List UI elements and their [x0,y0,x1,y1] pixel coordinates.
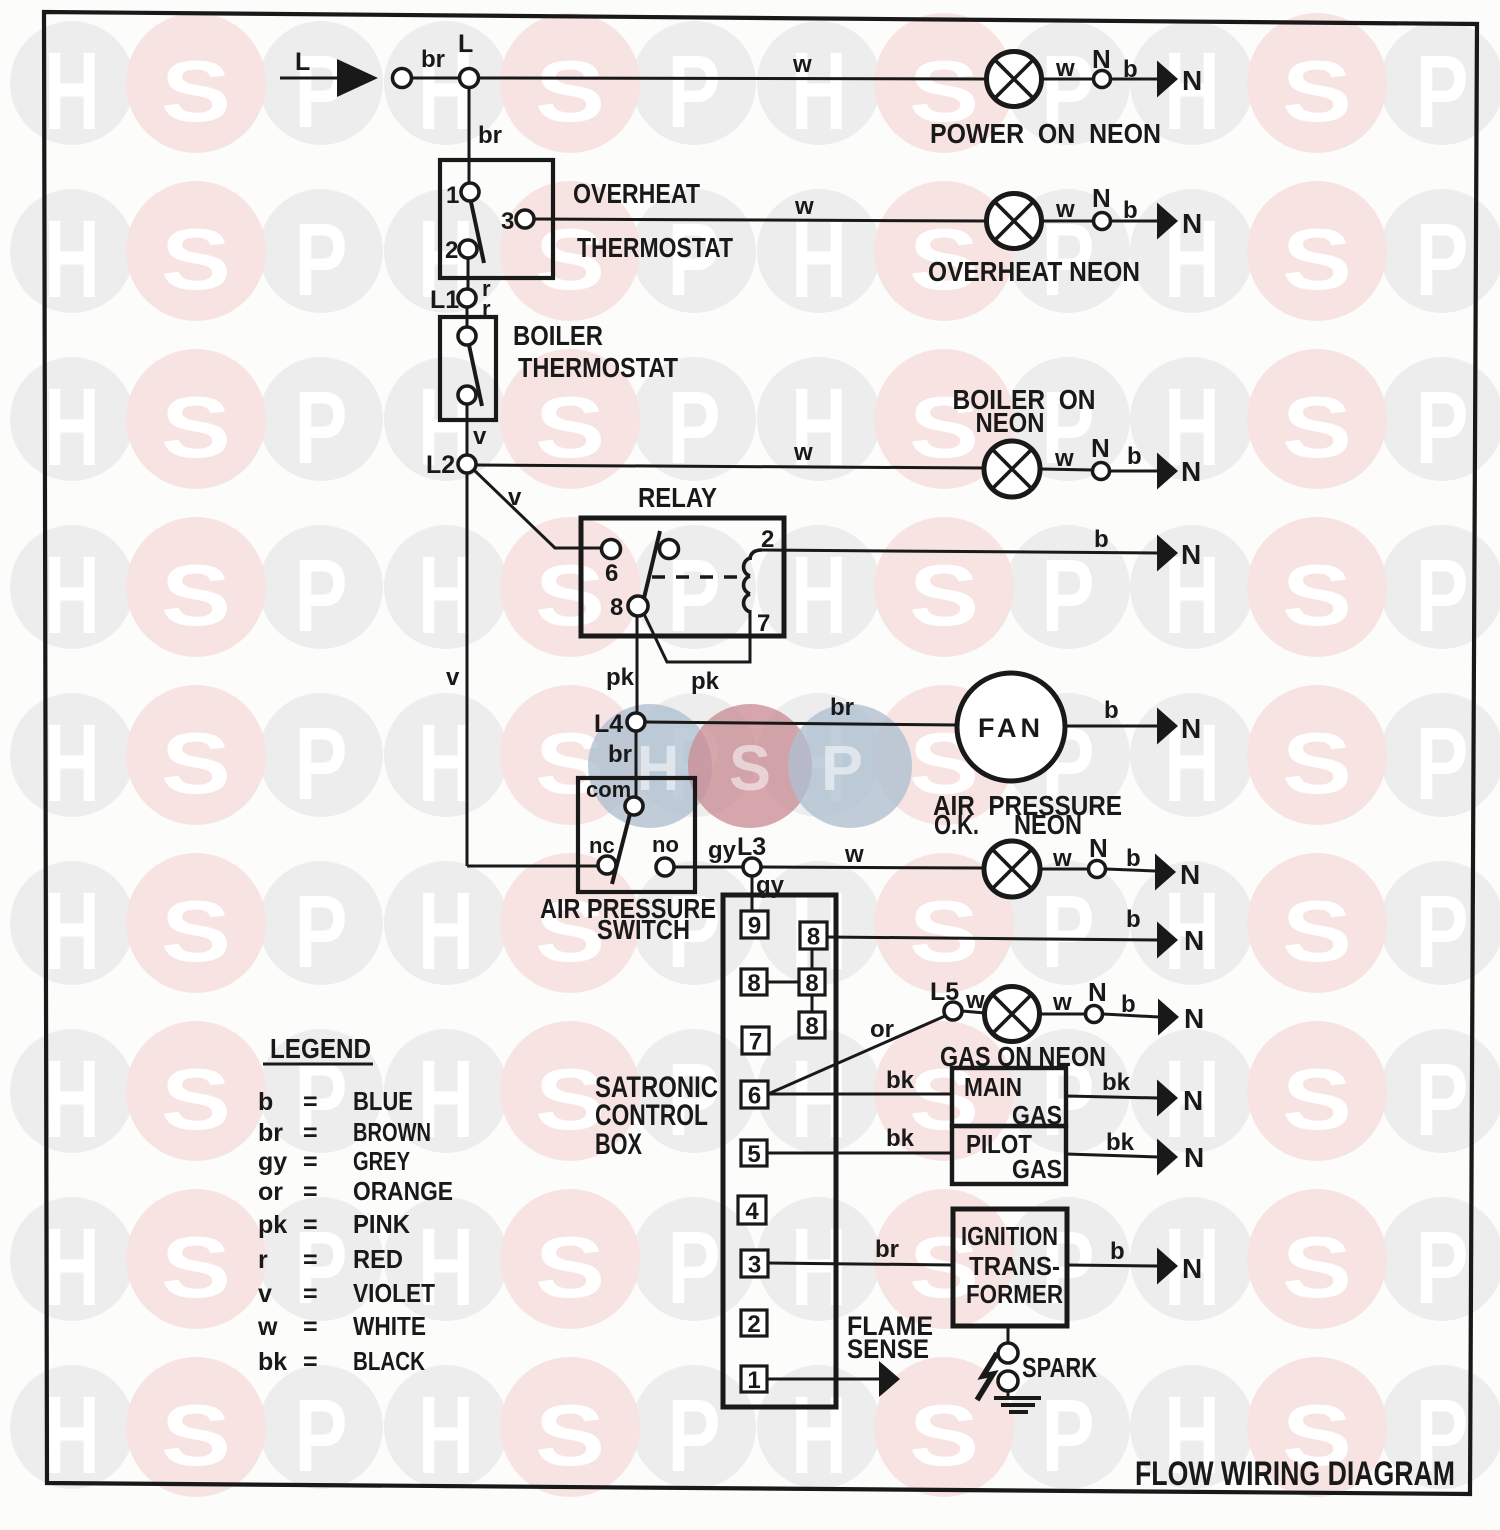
svg-text:H: H [44,870,100,993]
boiler thermostat box [440,317,496,420]
overheat thermostat box [440,160,553,278]
svg-text:H: H [44,1038,100,1161]
svg-text:H: H [44,198,100,321]
air pressure switch box [578,778,695,892]
svg-text:b: b [1126,845,1141,872]
svg-text:N: N [1092,183,1111,213]
svg-text:pk: pk [691,668,720,695]
svg-text:b: b [1127,443,1142,470]
wire pin3 to overheat neon [534,219,987,221]
switch blade overheat [471,202,484,263]
svg-text:=: = [303,1348,318,1376]
wire ignition down to spark gap [1007,1326,1010,1344]
svg-text:L: L [458,30,473,58]
svg-text:P: P [1416,1210,1469,1325]
svg-text:6: 6 [605,560,618,587]
wire no to L3 [674,866,744,869]
svg-text:S: S [1282,380,1352,476]
svg-text:RELAY: RELAY [638,482,717,513]
svg-text:S: S [161,716,231,812]
wire link 8 left to right [767,981,799,984]
svg-text:P: P [1416,874,1469,989]
wire link 8 middle to bottom [811,996,814,1012]
svg-text:THERMOSTAT: THERMOSTAT [577,232,733,263]
svg-text:H: H [791,1374,847,1497]
svg-text:pk: pk [606,664,635,691]
svg-text:=: = [303,1119,318,1147]
wire mains entry [280,77,340,80]
wire L2 to boiler on neon [476,465,985,468]
svg-text:=: = [303,1246,318,1274]
pin nc [598,856,616,874]
wire L to power neon [479,78,987,79]
svg-text:PINK: PINK [353,1209,410,1239]
svg-text:8: 8 [807,924,820,951]
svg-text:P: P [295,370,348,485]
svg-text:FLOW WIRING DIAGRAM: FLOW WIRING DIAGRAM [1135,1455,1455,1493]
svg-text:L4: L4 [594,710,623,738]
boiler thermostat bottom pin [458,386,476,404]
svg-text:w: w [1055,196,1075,223]
svg-text:1: 1 [747,1367,760,1394]
svg-text:S: S [909,884,979,980]
lightning bolt symbol [977,1353,997,1400]
svg-text:3: 3 [748,1252,761,1279]
svg-text:S: S [161,548,231,644]
svg-text:S: S [729,732,771,804]
wire L down to overheat thermostat [468,88,471,184]
lamp POWER ON NEON [987,52,1042,107]
terminal 8 middle right [799,969,825,997]
svg-text:7: 7 [757,610,770,637]
svg-text:v: v [508,484,522,511]
wire terminal 6 diagonal to L5 [768,1016,945,1094]
terminal 8 top right [800,922,827,951]
terminal 7 [742,1027,769,1056]
svg-text:S: S [161,380,231,476]
switch blade air pressure [612,814,630,884]
wire boiler neon to N junction [1041,469,1093,470]
svg-text:S: S [535,548,605,644]
svg-text:H: H [791,534,847,657]
svg-text:N: N [1181,456,1201,487]
svg-text:ORANGE: ORANGE [353,1176,453,1206]
svg-text:b: b [1123,197,1138,224]
svg-text:=: = [303,1088,318,1116]
svg-text:P: P [668,1378,721,1493]
wire to N arrow air [1106,869,1155,871]
svg-text:S: S [1282,548,1352,644]
svg-text:GAS: GAS [1012,1154,1062,1184]
svg-text:v: v [446,664,460,691]
svg-text:S: S [161,884,231,980]
wire gas neon to N junction [1040,1013,1086,1016]
legend entry v = VIOLET [258,1278,435,1308]
svg-text:w: w [792,51,812,78]
wire pin 8 down to L4 [636,615,639,713]
svg-text:P: P [1416,370,1469,485]
svg-text:=: = [303,1313,318,1341]
svg-text:w: w [1052,989,1072,1016]
wire coil top to N arrow [762,550,1158,553]
lamp AIR PRESSURE OK NEON [984,841,1040,897]
svg-text:L2: L2 [426,451,455,479]
svg-text:4: 4 [745,1198,759,1225]
wire L2 down to air pressure switch [466,473,469,866]
svg-text:H: H [44,30,100,153]
svg-text:FAN: FAN [978,713,1044,743]
svg-text:S: S [161,1388,231,1484]
svg-text:NEON: NEON [976,407,1045,438]
legend entry r = RED [258,1244,403,1274]
lamp BOILER ON NEON [984,441,1040,497]
svg-text:=: = [303,1211,318,1239]
svg-text:LEGEND: LEGEND [270,1033,371,1064]
svg-text:SPARK: SPARK [1022,1352,1097,1383]
svg-text:v: v [258,1280,272,1308]
svg-text:NEON: NEON [1014,809,1082,840]
svg-text:w: w [793,439,813,466]
svg-text:br: br [421,46,445,73]
junction circle N row2 [1094,213,1111,230]
svg-text:w: w [844,841,864,868]
svg-text:P: P [821,732,863,804]
arrow N pilot gas [1157,1139,1178,1176]
svg-text:N: N [1183,1085,1203,1116]
svg-text:b: b [1104,697,1119,724]
svg-text:r: r [258,1246,268,1274]
legend entry gy = GREY [258,1146,410,1176]
svg-text:bk: bk [886,1125,915,1152]
svg-text:N: N [1184,925,1204,956]
svg-text:S: S [161,44,231,140]
wire terminal 6 to main gas [768,1093,952,1096]
svg-text:N: N [1182,208,1202,239]
legend entry br = BROWN [258,1117,431,1147]
svg-text:P: P [668,34,721,149]
wire L3 to air pressure neon [761,867,984,868]
svg-text:br: br [608,741,632,768]
wire terminal 1 to flame sense [768,1378,880,1381]
svg-text:H: H [44,534,100,657]
arrow N ignition [1157,1248,1178,1285]
svg-text:S: S [1282,1052,1352,1148]
svg-text:no: no [652,832,679,857]
svg-text:S: S [161,212,231,308]
svg-text:P: P [1042,1378,1095,1493]
center HSP logo watermark [588,704,912,828]
wire terminal 3 to ignition transformer [768,1263,953,1265]
svg-text:8: 8 [805,1013,818,1040]
svg-text:N: N [1184,1003,1204,1034]
wire terminal 5 to pilot gas [767,1152,952,1155]
svg-text:H: H [418,1206,474,1329]
arrow flame sense [879,1361,900,1397]
svg-text:N: N [1088,977,1107,1007]
svg-text:b: b [258,1088,273,1116]
terminal 5 [741,1140,767,1168]
fan FAN circle [957,673,1065,781]
wire coil bottom loop to pin 8 [644,610,750,662]
svg-text:VIOLET: VIOLET [353,1278,435,1308]
relay pin 6 [602,540,621,559]
svg-text:or: or [258,1178,283,1206]
svg-text:BOX: BOX [595,1128,642,1161]
svg-text:3: 3 [501,208,514,235]
svg-text:P: P [668,1210,721,1325]
svg-text:S: S [909,1388,979,1484]
mains entry arrow [337,59,378,97]
ignition transformer box [953,1209,1067,1326]
boiler thermostat top pin [458,327,476,345]
legend entry or = ORANGE [258,1176,453,1206]
svg-text:S: S [535,1220,605,1316]
svg-text:gy: gy [258,1148,287,1176]
wire fan to N arrow [1063,725,1158,728]
svg-text:br: br [875,1236,899,1263]
relay moving contact circle [660,540,679,559]
svg-text:H: H [791,1206,847,1329]
svg-text:S: S [161,1052,231,1148]
wire overheat neon to N junction [1042,220,1094,223]
svg-text:bk: bk [1102,1069,1131,1096]
svg-text:1: 1 [446,182,459,209]
terminal 8 left [741,969,767,997]
svg-text:nc: nc [589,833,615,858]
svg-text:7: 7 [749,1029,762,1056]
terminal 3 [741,1250,768,1279]
svg-text:P: P [295,202,348,317]
arrow N fan [1157,708,1178,745]
svg-text:S: S [535,380,605,476]
svg-text:H: H [44,1206,100,1329]
legend entry pk = PINK [258,1209,410,1239]
svg-text:P: P [1042,538,1095,653]
wire L5 to gas neon [962,1011,985,1013]
wire air neon to N junction [1040,868,1089,871]
svg-text:S: S [1282,44,1352,140]
svg-text:H: H [791,30,847,153]
svg-text:H: H [637,732,679,804]
svg-text:BOILER: BOILER [513,320,603,351]
svg-text:GREY: GREY [353,1146,410,1176]
svg-text:N: N [1089,833,1108,863]
svg-text:H: H [418,870,474,993]
svg-text:P: P [1416,1042,1469,1157]
svg-text:=: = [303,1178,318,1206]
svg-text:2: 2 [747,1311,760,1338]
wire terminal 8 to N arrow [827,937,1158,940]
svg-text:RED: RED [353,1244,403,1274]
svg-text:FORMER: FORMER [966,1279,1063,1309]
wire to N arrow row3 [1110,470,1158,473]
svg-text:OVERHEAT: OVERHEAT [573,178,700,209]
svg-text:H: H [418,1374,474,1497]
svg-text:MAIN: MAIN [964,1072,1022,1102]
svg-text:bk: bk [1106,1129,1135,1156]
svg-text:b: b [1110,1238,1125,1265]
wire L3 down into satronic box [751,876,754,912]
svg-text:N: N [1181,539,1201,570]
svg-text:H: H [44,366,100,489]
wire link 8 top to middle [811,950,814,969]
wire to N arrow gas [1103,1014,1159,1017]
svg-text:2: 2 [445,237,458,264]
wire power neon to N junction [1042,78,1094,81]
pin com [625,797,643,815]
wire pin2 to L1 [467,258,470,289]
junction circle N row3 [1093,463,1110,480]
svg-text:P: P [1042,874,1095,989]
svg-text:P: P [1416,202,1469,317]
wire L1 to boiler thermostat [466,307,469,328]
arrow N main gas [1157,1080,1178,1117]
svg-text:S: S [161,1220,231,1316]
terminal 4 [738,1196,766,1225]
wire entry to L [412,77,460,80]
svg-text:P: P [295,874,348,989]
svg-text:BLUE: BLUE [353,1086,413,1116]
svg-text:THERMOSTAT: THERMOSTAT [518,352,678,383]
junction circle N gas [1086,1006,1103,1023]
svg-text:6: 6 [748,1083,761,1110]
svg-text:w: w [257,1313,278,1341]
pin no [656,858,674,876]
svg-text:N: N [1091,433,1110,463]
svg-text:=: = [303,1280,318,1308]
arrow N row3 [1157,453,1178,490]
svg-text:b: b [1094,526,1109,553]
svg-text:L: L [295,48,310,76]
svg-text:gy: gy [708,837,737,864]
svg-text:WHITE: WHITE [353,1311,426,1341]
svg-text:b: b [1121,991,1136,1018]
svg-text:bk: bk [886,1067,915,1094]
svg-text:OVERHEAT NEON: OVERHEAT NEON [928,256,1140,287]
svg-text:w: w [1052,845,1072,872]
wire boiler thermostat to L2 [466,404,469,456]
svg-text:w: w [965,987,985,1014]
wire L4 to fan [645,722,959,725]
svg-text:N: N [1180,859,1200,890]
svg-text:TRANS-: TRANS- [969,1251,1060,1281]
relay coil [744,550,762,612]
svg-text:com: com [586,777,631,802]
svg-text:N: N [1182,65,1202,96]
arrow N relay [1157,535,1178,572]
wire lower electrode to ground [1007,1391,1010,1398]
svg-text:N: N [1182,1253,1202,1284]
wire L2 diagonal to relay [474,470,602,548]
wire pilot gas to N arrow [1066,1154,1158,1157]
svg-text:BLACK: BLACK [353,1346,425,1376]
svg-text:S: S [535,1388,605,1484]
arrow N gas [1158,999,1179,1036]
svg-text:SENSE: SENSE [847,1334,929,1364]
arrow N row1 [1157,61,1178,98]
svg-text:=: = [303,1148,318,1176]
svg-text:S: S [909,548,979,644]
junction circle N row1 [1094,71,1111,88]
svg-text:P: P [1416,706,1469,821]
svg-text:8: 8 [610,594,623,621]
svg-text:v: v [473,423,487,450]
lamp GAS ON NEON [985,987,1040,1042]
svg-text:L1: L1 [430,286,459,314]
terminal 1 [741,1366,767,1394]
svg-text:P: P [1416,34,1469,149]
junction circle entry [393,69,412,88]
spark gap lower electrode [998,1371,1018,1391]
wire to N arrow row1 [1111,78,1158,81]
satronic control box [723,895,836,1407]
svg-text:IGNITION: IGNITION [961,1221,1058,1251]
svg-text:w: w [1054,445,1074,472]
svg-text:POWER ON NEON: POWER ON NEON [930,118,1161,149]
svg-text:N: N [1181,713,1201,744]
svg-text:w: w [794,193,814,220]
lamp OVERHEAT NEON [987,194,1042,249]
terminal 8 bottom right [799,1012,825,1040]
main gas box [952,1068,1066,1126]
svg-text:P: P [295,706,348,821]
svg-text:or: or [870,1016,894,1043]
svg-text:H: H [791,366,847,489]
svg-text:bk: bk [258,1348,287,1376]
pilot gas box [952,1126,1066,1184]
svg-text:S: S [1282,884,1352,980]
legend entry b = BLUE [258,1086,413,1116]
svg-text:br: br [478,122,502,149]
svg-text:br: br [258,1119,283,1147]
terminal 6 [741,1081,768,1110]
svg-text:b: b [1126,906,1141,933]
svg-text:N: N [1184,1142,1204,1173]
svg-text:O.K.: O.K. [934,809,979,840]
svg-text:b: b [1123,56,1138,83]
svg-text:SWITCH: SWITCH [597,914,690,945]
arrow N row2 [1157,203,1178,240]
wire to N arrow row2 [1111,220,1158,223]
svg-text:H: H [44,1374,100,1497]
legend entry w = WHITE [257,1311,426,1341]
relay RELAY box [581,518,784,636]
wire ignition to N arrow [1067,1265,1158,1266]
svg-text:S: S [1282,716,1352,812]
ground symbol [994,1398,1041,1412]
svg-text:w: w [1055,55,1075,82]
svg-text:H: H [791,1038,847,1161]
relay switch blade [644,531,660,598]
svg-text:5: 5 [747,1141,760,1168]
wire L4 down to air pressure switch com [635,731,638,797]
svg-text:P: P [295,538,348,653]
svg-text:9: 9 [748,913,761,940]
junction circle N air [1089,861,1106,878]
svg-text:8: 8 [747,970,760,997]
arrow N air [1155,854,1176,891]
legend entry bk = BLACK [258,1346,425,1376]
svg-text:br: br [830,694,854,721]
terminal 9 [741,911,768,940]
svg-text:P: P [295,1378,348,1493]
svg-text:BROWN: BROWN [353,1117,431,1147]
svg-text:S: S [535,44,605,140]
svg-text:H: H [44,702,100,825]
arrow N term8 [1157,922,1178,959]
terminal 2 [741,1310,767,1338]
svg-text:S: S [1282,212,1352,308]
